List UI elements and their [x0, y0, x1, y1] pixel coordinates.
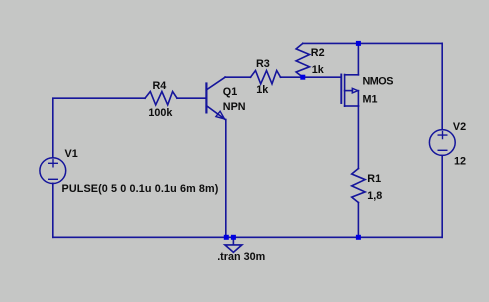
- svg-text:V2: V2: [453, 121, 466, 133]
- transistor Q1 emitter diagonal: [207, 106, 226, 120]
- wire Q1 emitter to bottom rail: [225, 120, 227, 238]
- voltage source V2 circle: [429, 130, 455, 156]
- voltage source V2 plus: [438, 132, 447, 139]
- svg-text:12: 12: [454, 156, 466, 168]
- svg-text:M1: M1: [363, 94, 378, 106]
- transistor M1 bulk arrow: [352, 88, 358, 93]
- transistor M1 source stub: [345, 105, 359, 107]
- wire V2 bottom lead: [441, 156, 443, 238]
- node junction emitter/bottom rail: [224, 235, 229, 240]
- node junction R3/R2/gate: [300, 75, 305, 80]
- node junction R1/bottom rail: [356, 235, 361, 240]
- svg-text:1,8: 1,8: [367, 190, 382, 202]
- transistor M1 drain stub: [345, 74, 359, 76]
- transistor M1 bulk-source line: [357, 91, 359, 106]
- voltage source V1 circle: [40, 158, 66, 184]
- wire top rail R2 top to V2 top corner: [303, 42, 442, 44]
- voltage source V2 minus: [438, 149, 447, 151]
- wire R1 bottom to bottom rail: [357, 203, 359, 238]
- svg-text:.tran 30m: .tran 30m: [217, 251, 265, 263]
- wire R4 to Q1 base: [177, 97, 206, 99]
- transistor M1 bulk stub: [345, 90, 353, 92]
- wire M1 source to R1 top: [357, 106, 359, 169]
- resistor R3: [251, 71, 281, 84]
- wire V2 top lead: [441, 43, 443, 129]
- transistor M1 channel line: [344, 75, 346, 107]
- svg-text:100k: 100k: [148, 107, 173, 119]
- svg-text:V1: V1: [65, 148, 78, 160]
- svg-text:R4: R4: [153, 80, 167, 92]
- svg-text:R2: R2: [311, 47, 325, 59]
- transistor Q1 collector diagonal: [207, 77, 225, 89]
- wire Q1 collector to R3: [225, 76, 251, 78]
- voltage source V1 plus: [49, 160, 58, 167]
- wire top-left corner: V1 top to R4: [53, 98, 145, 158]
- svg-text:NPN: NPN: [223, 101, 246, 113]
- resistor R4: [145, 92, 177, 105]
- wire bottom rail: [53, 236, 442, 238]
- transistor Q1 emitter arrow: [216, 111, 225, 119]
- resistor R1: [352, 169, 365, 203]
- voltage source V1 minus: [49, 178, 58, 180]
- wire gate node to M1 gate: [303, 76, 341, 78]
- wire M1 drain to top rail: [357, 43, 359, 74]
- transistor Q1 bar: [205, 84, 207, 113]
- svg-text:R1: R1: [367, 173, 381, 185]
- svg-text:1k: 1k: [256, 84, 269, 96]
- wire V1 bottom to bottom rail: [52, 183, 54, 237]
- wire R3 to node at R2 bottom: [281, 76, 303, 78]
- node junction drain/top rail: [356, 41, 361, 46]
- svg-text:NMOS: NMOS: [363, 76, 394, 88]
- transistor M1 gate bar: [340, 75, 342, 104]
- resistor R2: [296, 43, 309, 77]
- ground: [225, 237, 242, 252]
- svg-text:Q1: Q1: [223, 86, 237, 98]
- svg-text:R3: R3: [256, 58, 270, 70]
- svg-text:PULSE(0 5 0 0.1u 0.1u 6m 8m): PULSE(0 5 0 0.1u 0.1u 6m 8m): [62, 183, 219, 195]
- node junction ground/bottom rail: [231, 235, 236, 240]
- svg-text:1k: 1k: [312, 64, 325, 76]
